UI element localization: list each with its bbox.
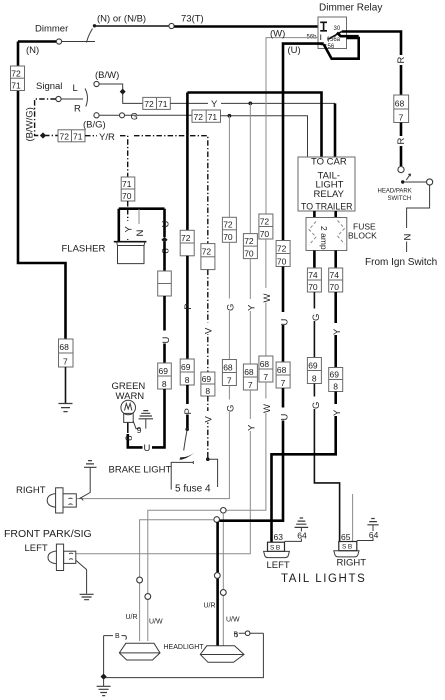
svg-text:TO CAR: TO CAR: [311, 157, 347, 168]
lamp green warn bulb: [121, 400, 136, 415]
svg-text:9: 9: [137, 425, 142, 435]
svg-text:U: U: [161, 337, 172, 344]
wire Y line corner down to tail relay right pin: [334, 103, 337, 157]
lamp left front park/sig holder: [56, 544, 63, 570]
svg-text:Y/R: Y/R: [99, 132, 115, 143]
svg-text:72: 72: [260, 216, 270, 226]
wire W vertical: [265, 213, 267, 215]
svg-text:70: 70: [122, 191, 132, 201]
svg-text:69: 69: [330, 369, 340, 379]
pin 56a hook: [328, 37, 329, 42]
svg-text:68: 68: [277, 365, 287, 375]
svg-text:RIGHT: RIGHT: [337, 558, 367, 569]
svg-text:8: 8: [312, 374, 317, 384]
flasher unit: [114, 241, 147, 243]
connector 69/8 on P wire: [180, 359, 194, 385]
svg-text:71: 71: [11, 81, 21, 91]
junction diamond ground bus: [100, 673, 106, 679]
ground above right front lamp inverted: [84, 461, 97, 468]
connector 68/7 on Y: [243, 364, 257, 390]
svg-text:N: N: [402, 234, 413, 241]
flasher feed bar: [119, 207, 165, 210]
connector circle on right U/W: [220, 590, 226, 596]
wire ground left tail: [285, 527, 302, 541]
svg-text:U: U: [161, 221, 172, 228]
ground bottom: [97, 686, 111, 695]
connector 68/7 on G: [222, 360, 236, 386]
wire G mid: [228, 242, 230, 359]
svg-text:8: 8: [205, 386, 210, 396]
svg-text:Dimmer Relay: Dimmer Relay: [319, 3, 382, 14]
signal switch lever: [85, 89, 87, 107]
lamp right front pins: [69, 498, 73, 505]
svg-text:U/R: U/R: [126, 614, 138, 621]
wire ground stem bottom: [103, 679, 105, 686]
svg-text:70: 70: [308, 282, 318, 292]
svg-text:TO TRAILER: TO TRAILER: [301, 202, 353, 212]
svg-text:N: N: [135, 230, 146, 237]
svg-text:V: V: [204, 416, 215, 423]
svg-text:G: G: [131, 112, 138, 123]
dimmer switch lever: [87, 29, 93, 43]
tail light LEFT socket S B: [268, 542, 285, 551]
junction circle U/R right headlight: [214, 517, 220, 523]
wire P to brake switch: [186, 385, 189, 428]
label Y2 rotated: [332, 323, 341, 335]
svg-text:TAIL LIGHTS: TAIL LIGHTS: [281, 573, 366, 585]
head/park switch input terminal: [398, 167, 404, 173]
svg-text:69: 69: [202, 374, 212, 384]
connector circle on right U/R: [214, 573, 220, 579]
connector 69/8 on V wire: [201, 372, 215, 396]
wire pin30 to R drop: [342, 32, 401, 96]
svg-text:7: 7: [281, 378, 286, 388]
wire fuse to 74/70 right: [334, 251, 337, 269]
wire G vertical: [228, 116, 230, 218]
svg-text:U: U: [279, 319, 290, 326]
brake light switch actuator: [184, 429, 188, 450]
svg-text:P: P: [183, 408, 194, 414]
svg-text:68: 68: [59, 342, 69, 352]
label G rotated: [225, 299, 234, 312]
wire left rail down: [18, 42, 66, 340]
svg-text:LEFT: LEFT: [267, 560, 290, 571]
ground left: [59, 404, 73, 412]
junction diamond B/W/G: [40, 132, 46, 138]
label U rotated mid: [160, 331, 169, 344]
wire B pin left headlight: [104, 636, 127, 640]
pin 56b tick: [320, 35, 322, 41]
svg-text:HEAD/PARK: HEAD/PARK: [378, 189, 412, 195]
wire signal dash-dot to B/W/G: [35, 99, 58, 136]
svg-text:BLOCK: BLOCK: [348, 231, 377, 241]
svg-text:FLASHER: FLASHER: [62, 244, 106, 255]
wire right front lamp ground stem: [80, 467, 91, 498]
relay K1 Dimmer Relay box: [318, 17, 347, 49]
svg-text:71: 71: [158, 99, 168, 109]
svg-text:8: 8: [333, 382, 338, 392]
wire signal common stub: [61, 98, 83, 100]
connector circle B right: [245, 631, 250, 636]
pin 56 tick: [321, 44, 327, 46]
svg-text:RIGHT: RIGHT: [16, 485, 46, 496]
svg-text:65: 65: [341, 532, 351, 542]
svg-text:70: 70: [277, 256, 287, 266]
connector 69/8 on Y2: [329, 368, 343, 392]
wire (U) from relay pin 56: [283, 44, 324, 241]
svg-text:68: 68: [223, 362, 233, 372]
wire N tail: [406, 242, 408, 253]
head/park switch pole dot: [401, 180, 404, 183]
svg-text:W: W: [262, 294, 273, 303]
label G2 rotated: [310, 309, 319, 322]
lamp right front body: [63, 494, 76, 507]
svg-text:(N) or (N/B): (N) or (N/B): [97, 14, 146, 25]
svg-text:64: 64: [369, 530, 379, 540]
svg-text:72: 72: [223, 220, 233, 230]
svg-text:71: 71: [73, 132, 83, 142]
lamp left front pins: [69, 553, 73, 559]
label V rotated: [204, 323, 213, 335]
wire U to headlight U/R feed: [219, 388, 283, 521]
svg-text:LEFT: LEFT: [25, 543, 48, 554]
connector 74/70 on G2: [307, 268, 321, 292]
connector circle on left U/W: [145, 594, 151, 600]
svg-text:G: G: [226, 405, 237, 412]
svg-text:BRAKE LIGHT: BRAKE LIGHT: [109, 465, 172, 476]
svg-text:69: 69: [159, 366, 169, 376]
ground left front lamp: [80, 594, 94, 599]
label R rotated lower: [397, 136, 406, 146]
svg-text:8: 8: [185, 375, 190, 385]
wire fuse to 74/70 left: [313, 251, 316, 269]
connector 72|71 on Y line: [143, 97, 171, 109]
svg-text:(U): (U): [288, 45, 301, 56]
svg-text:(N): (N): [26, 45, 39, 56]
wire P mid: [186, 256, 189, 359]
svg-text:74: 74: [308, 270, 318, 280]
wire (W) from relay pin 56b: [266, 38, 318, 214]
tail light RIGHT bucket: [334, 551, 359, 557]
wire bar right drop (U branch): [163, 209, 166, 237]
svg-text:R: R: [396, 57, 407, 64]
connector 72/70 on U: [276, 241, 290, 267]
wire P bus to tail relay mid pin: [187, 93, 321, 231]
fuse marks right: [338, 221, 345, 245]
wire L contact jog to Y line: [99, 84, 142, 103]
wire G to right front park lamp: [77, 386, 229, 499]
contact L terminal: [94, 81, 99, 86]
label U rotated lower: [279, 408, 288, 421]
junction circle U/W right headlight: [221, 508, 227, 514]
svg-text:SB: SB: [342, 544, 354, 551]
lamp left front bulb nose: [48, 551, 56, 564]
svg-text:L: L: [73, 83, 78, 94]
svg-text:7: 7: [248, 380, 253, 390]
relay coil: [320, 22, 327, 31]
bracket 5 fuse 4 right: [210, 459, 218, 487]
wire G2 to right tail: [314, 384, 339, 542]
wire G line to box: [125, 114, 193, 116]
label U rotated: [279, 312, 288, 325]
svg-text:SWITCH: SWITCH: [388, 196, 412, 202]
wire U branch mid: [163, 296, 166, 363]
label V rotated lower: [204, 411, 213, 423]
connector 74/70 on Y2: [329, 268, 343, 292]
svg-text:G: G: [311, 402, 322, 409]
svg-text:69: 69: [181, 362, 191, 372]
svg-text:U/W: U/W: [226, 617, 240, 624]
wire dimmer common stub: [62, 41, 95, 43]
connector 72 on V wire: [201, 244, 215, 270]
wire left front lamp to ground: [76, 560, 87, 594]
label W rotated lower: [261, 399, 270, 414]
fuse block box: [306, 218, 347, 251]
connector circle on G line: [120, 113, 125, 118]
wire 73(T) to dimmer relay coil: [174, 25, 322, 28]
connector empty on U branch: [158, 271, 172, 296]
svg-text:56a: 56a: [330, 37, 341, 43]
svg-text:72: 72: [244, 236, 254, 246]
svg-text:(B/G): (B/G): [83, 120, 106, 131]
label G rotated lower: [225, 400, 234, 413]
wire Y dash-dot into flasher: [127, 209, 129, 240]
node G drop junction: [228, 114, 232, 118]
wire W to headlight U/W feed: [226, 382, 266, 510]
svg-text:G: G: [311, 314, 322, 321]
wire U mid: [282, 267, 285, 363]
wire U/R right headlight drop thick: [216, 522, 219, 646]
node (N) terminal dot: [93, 24, 96, 27]
wire ground right tail: [357, 525, 373, 541]
junction diamond on B/W: [120, 89, 126, 95]
svg-text:8: 8: [124, 436, 135, 441]
svg-text:68: 68: [260, 359, 270, 369]
ground 64 left tail inverted: [295, 518, 309, 527]
svg-text:U: U: [144, 443, 151, 454]
connector circle on left U/R: [137, 577, 143, 583]
signal switch common terminal: [56, 96, 61, 101]
svg-text:(B/W): (B/W): [95, 70, 119, 81]
svg-text:70: 70: [330, 282, 340, 292]
svg-text:R: R: [396, 138, 407, 145]
connector 73(T) circle: [169, 23, 174, 28]
wire ground stem green warn: [145, 419, 147, 429]
svg-text:63: 63: [274, 532, 284, 542]
connector 72/70 on G: [222, 217, 236, 242]
wire green warn ground pin: [133, 421, 140, 429]
relay armature 56a-30: [328, 32, 342, 40]
wire W mid: [265, 239, 267, 356]
headlight left bucket: [119, 643, 160, 660]
connector 69/8 on U branch: [158, 363, 172, 389]
wire bulb stem: [127, 423, 129, 434]
wire U/W right headlight drop: [222, 513, 224, 646]
svg-text:Y: Y: [332, 328, 343, 335]
wire top feed to connector: [96, 25, 169, 27]
wire relay to fuse left: [313, 211, 316, 218]
node Y drop junction: [248, 102, 252, 106]
dimmer switch common terminal: [56, 39, 61, 44]
wire Y to left front park lamp: [76, 390, 250, 554]
lamp left front body: [64, 551, 76, 563]
wire U/W feed left: [148, 510, 221, 641]
headlight right bucket: [200, 646, 244, 663]
wire Y2 mid: [334, 292, 337, 368]
svg-text:V: V: [204, 327, 215, 334]
wire B pin right headlight: [235, 633, 264, 637]
wire ground bus left: [104, 633, 264, 677]
connector 71/70 on Y/R flasher wire: [121, 177, 135, 201]
svg-text:B: B: [115, 633, 120, 640]
wire V dashed branch: [134, 136, 208, 244]
svg-text:74: 74: [330, 270, 340, 280]
connector 69/8 on G2: [307, 358, 321, 384]
wire R to head/park switch: [400, 123, 403, 167]
wire stub into right tail: [352, 494, 354, 542]
wire head/park to N: [407, 185, 430, 228]
svg-text:2 amp: 2 amp: [319, 226, 329, 250]
svg-text:64: 64: [297, 531, 307, 541]
svg-text:SB: SB: [270, 544, 282, 551]
svg-text:Dimmer: Dimmer: [35, 24, 68, 35]
wire Y line continues to relay pin: [221, 102, 335, 104]
svg-text:U/R: U/R: [204, 603, 216, 610]
svg-text:Y: Y: [247, 424, 258, 431]
relay box TO CAR TAIL-LIGHT RELAY TO TRAILER: [298, 157, 355, 211]
head/park switch blade: [404, 174, 426, 182]
connector 72 on P wire: [180, 230, 194, 256]
node V pin dot: [206, 457, 210, 461]
tail light LEFT bucket: [264, 551, 290, 557]
connector 72|71 on G line: [192, 110, 221, 122]
node P brake dot: [185, 428, 189, 432]
svg-text:(W): (W): [270, 29, 285, 40]
lamp right front park/sig holder: [56, 488, 63, 513]
svg-text:72: 72: [194, 112, 204, 122]
svg-text:7: 7: [227, 376, 232, 386]
label Y2 rotated lower: [332, 404, 341, 416]
label W rotated: [261, 288, 270, 303]
wire R contact stub: [99, 114, 119, 116]
label Y rotated: [246, 299, 255, 311]
connector 72/70 on W: [259, 214, 273, 239]
svg-text:W: W: [262, 404, 273, 413]
svg-text:56: 56: [328, 44, 335, 50]
wire 56a loop: [324, 33, 359, 59]
svg-text:73(T): 73(T): [181, 14, 204, 25]
contact R terminal: [94, 113, 99, 118]
svg-text:70: 70: [223, 232, 233, 242]
wire Y/R dash-dot to flasher drop: [120, 136, 128, 177]
wire N into flasher: [138, 209, 140, 240]
svg-text:72: 72: [11, 69, 21, 79]
label Y rotated lower: [246, 419, 255, 431]
lamp right front bulb nose: [47, 494, 55, 508]
wire relay to fuse right: [334, 211, 337, 218]
svg-text:68: 68: [244, 367, 254, 377]
connector diamond on U branch: [161, 237, 167, 243]
svg-text:HEADLIGHT: HEADLIGHT: [164, 644, 205, 651]
wire Y mid: [249, 259, 251, 364]
label G2 rotated lower: [310, 397, 319, 410]
connector 72|71 on Y/R: [58, 130, 85, 142]
tail light RIGHT socket S B: [339, 542, 357, 551]
svg-text:71: 71: [122, 179, 132, 189]
svg-text:69: 69: [308, 360, 318, 370]
wire dimmer common to left rail: [18, 40, 56, 43]
svg-text:72: 72: [202, 246, 212, 256]
svg-text:5 fuse 4: 5 fuse 4: [175, 484, 211, 495]
svg-text:Y: Y: [332, 409, 343, 416]
lamp green warn base: [124, 413, 134, 422]
svg-text:U/W: U/W: [149, 619, 163, 626]
wire U branch to green warn: [152, 389, 165, 447]
connector tick on park feed: [81, 498, 83, 501]
wire 68/7 to ground: [65, 367, 67, 404]
wire Y/R dash-dot: [85, 135, 97, 137]
svg-text:7: 7: [63, 357, 68, 367]
connector 72/70 on Y: [243, 234, 257, 259]
svg-text:FRONT PARK/SIG: FRONT PARK/SIG: [4, 528, 92, 540]
label P rotated lower: [183, 404, 192, 415]
svg-text:71: 71: [208, 112, 218, 122]
svg-text:8: 8: [162, 379, 167, 389]
connector 68/7 on R: [394, 95, 409, 123]
svg-text:70: 70: [244, 248, 254, 258]
wire bar left drop to flasher: [118, 209, 121, 242]
bracket 5 fuse 4 left: [171, 461, 193, 490]
ground green warn inverted: [139, 411, 153, 419]
svg-text:72: 72: [181, 233, 191, 243]
connector 68/7 left: [59, 339, 74, 367]
connector 68/7 on U: [276, 362, 290, 388]
svg-text:7: 7: [399, 112, 404, 122]
svg-text:From Ign Switch: From Ign Switch: [365, 257, 437, 268]
wire U/R feed left thin: [140, 520, 214, 641]
svg-text:Y: Y: [211, 99, 218, 110]
wire V mid: [207, 270, 209, 372]
svg-text:Y: Y: [247, 304, 258, 311]
svg-text:R: R: [74, 104, 81, 115]
svg-text:72: 72: [60, 132, 70, 142]
svg-text:72: 72: [144, 99, 154, 109]
svg-text:P: P: [183, 303, 194, 309]
svg-text:7: 7: [263, 372, 268, 382]
svg-text:RELAY: RELAY: [314, 189, 345, 200]
ground 64 right tail inverted: [367, 519, 378, 525]
wire Y line: [170, 102, 208, 104]
connector 68/7 on W: [259, 356, 273, 382]
svg-text:U: U: [279, 414, 290, 421]
svg-text:G: G: [226, 304, 237, 311]
svg-text:70: 70: [260, 229, 270, 239]
connector 72/71 left rail: [11, 66, 25, 91]
wire U branch to empty connector: [163, 242, 166, 271]
svg-text:Y: Y: [124, 226, 135, 233]
label R rotated upper: [397, 55, 406, 65]
svg-text:68: 68: [395, 98, 405, 108]
wire Y vertical: [249, 103, 251, 233]
wire green warn link: [128, 434, 143, 447]
wire G line continues to tail relay left pin: [221, 116, 308, 157]
svg-text:Signal: Signal: [36, 81, 62, 92]
label N rotated on flasher wire: [135, 224, 143, 240]
wire Y2 to left tail: [272, 392, 336, 543]
wire V to brake bracket: [207, 396, 209, 458]
wire Y/R into bar: [127, 201, 129, 208]
fuse marks left: [309, 222, 316, 246]
